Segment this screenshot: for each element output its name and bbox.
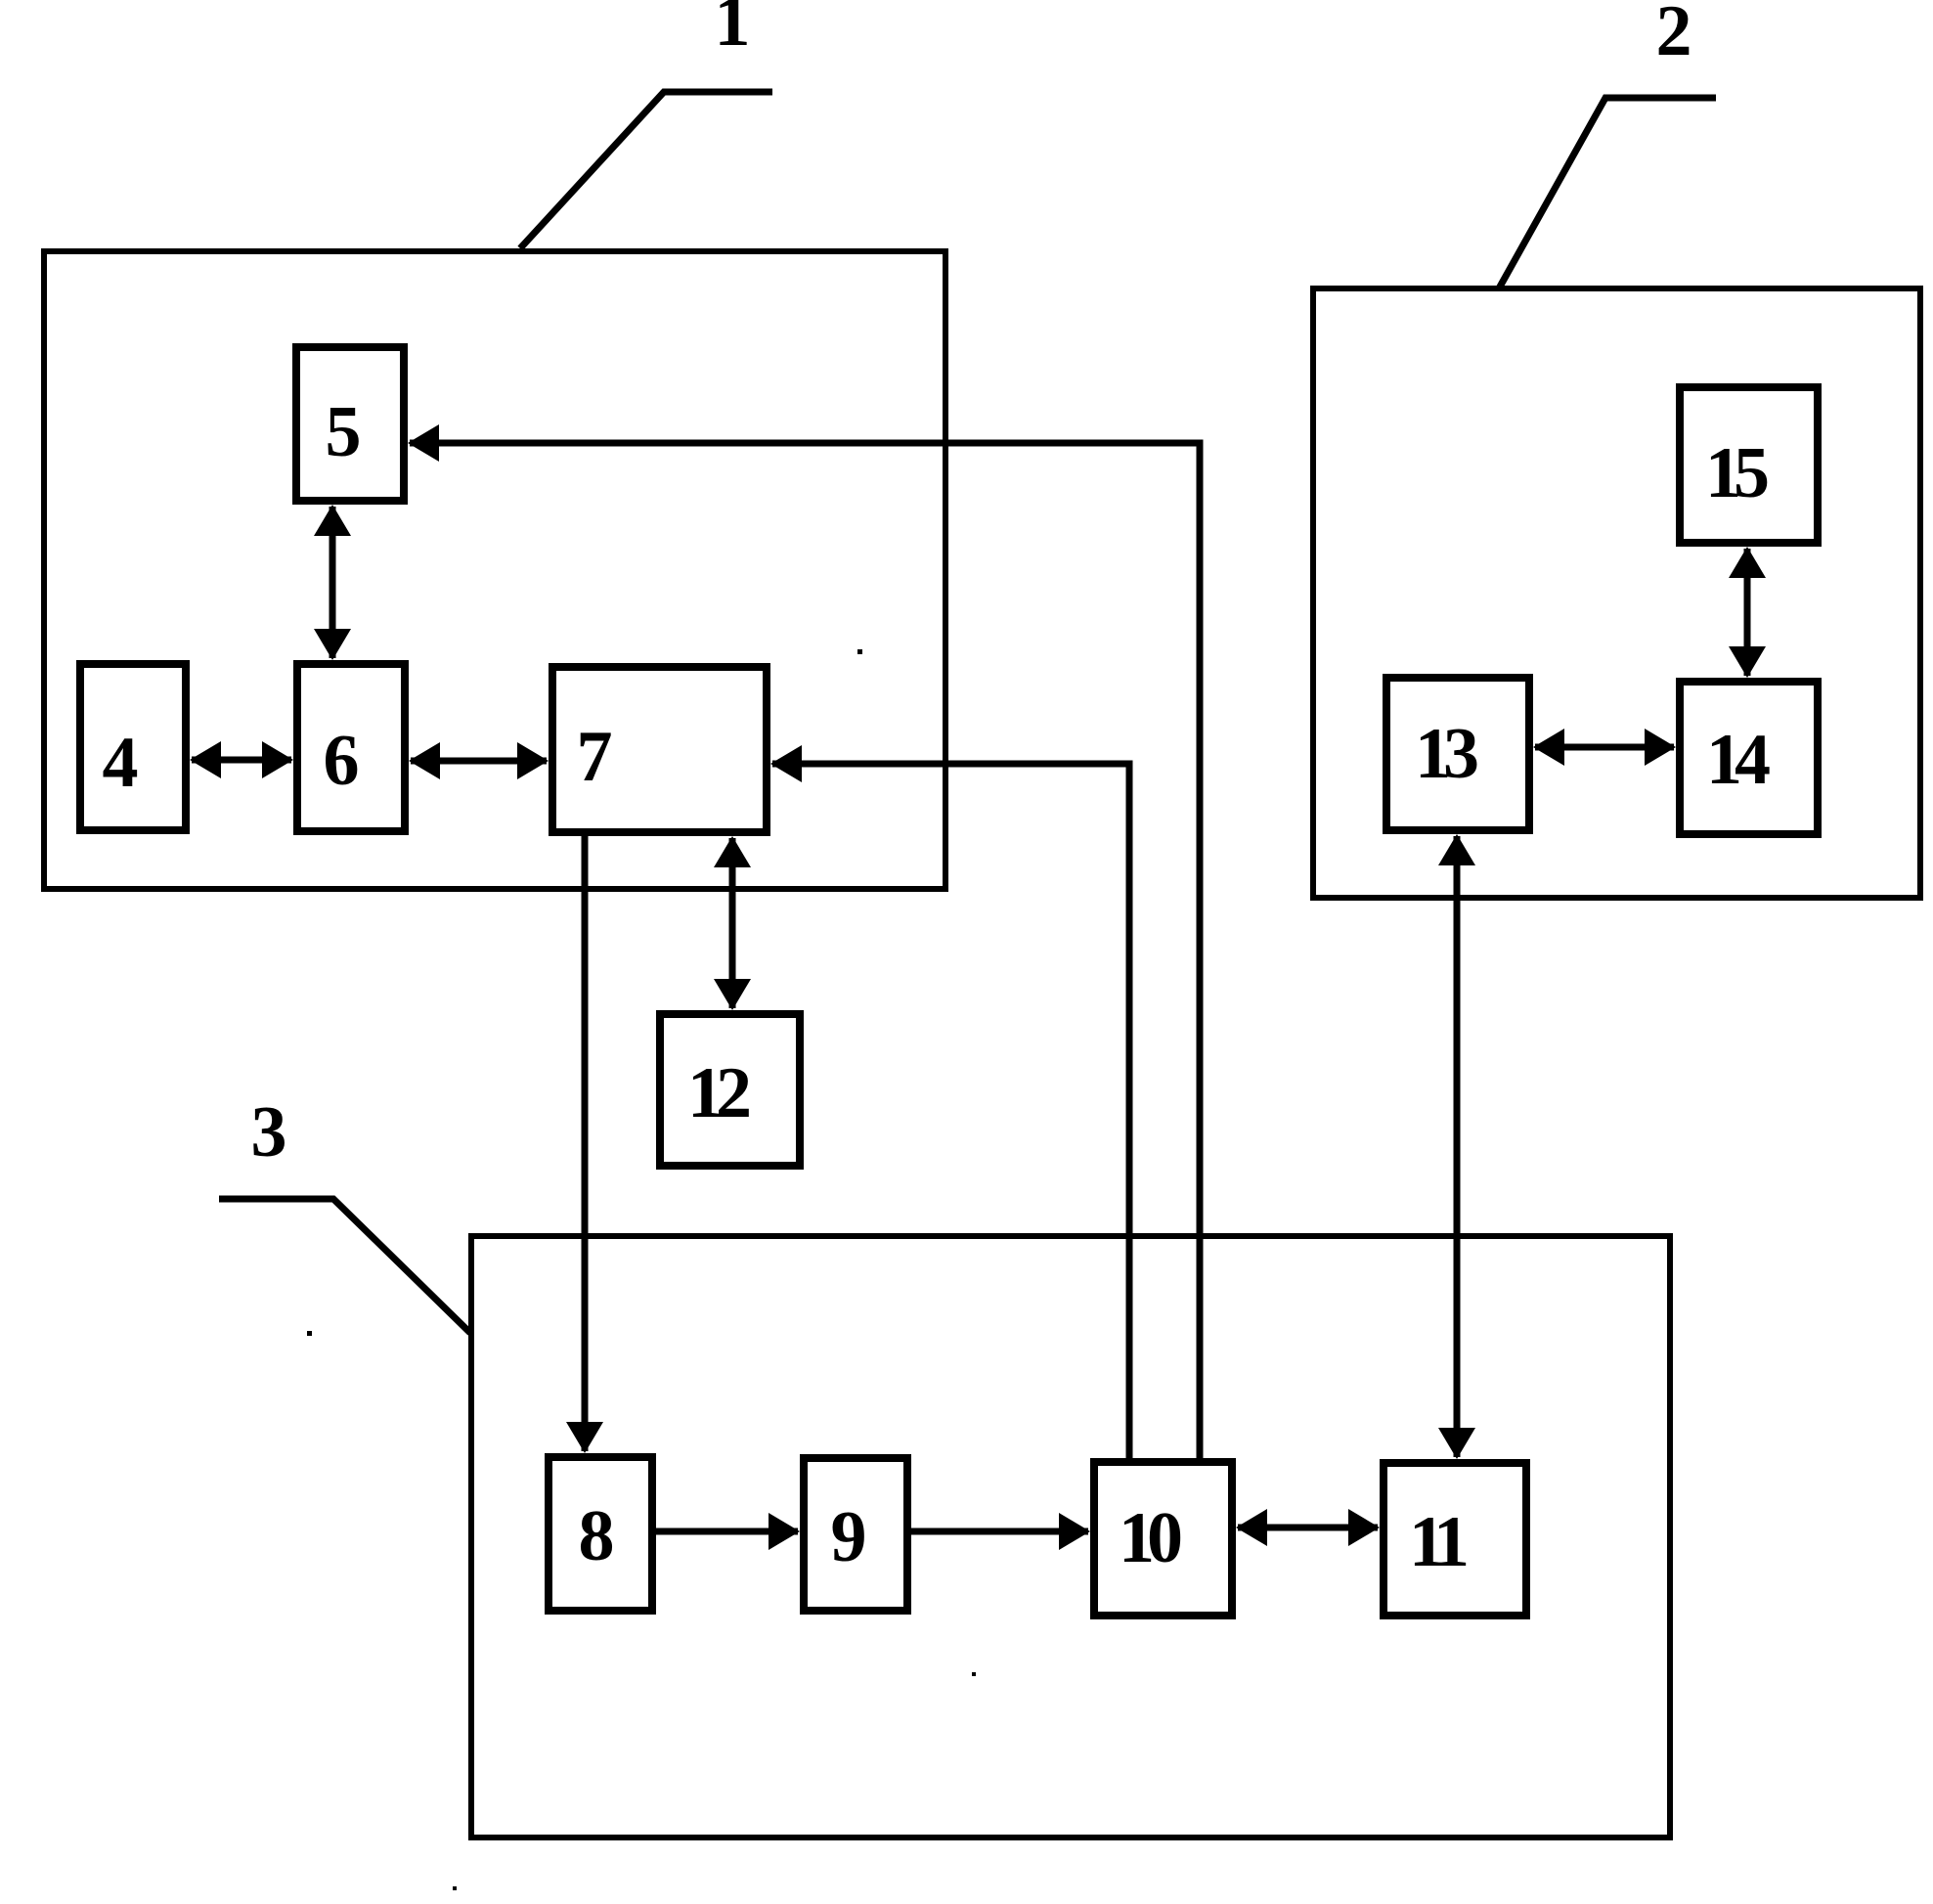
svg-text:8: 8 — [579, 1496, 615, 1576]
block 7 — [552, 667, 767, 832]
svg-text:14: 14 — [1706, 720, 1770, 800]
wire 14-15 double arrow (vertical) — [1729, 547, 1766, 678]
wire 5-6 double arrow — [314, 505, 351, 660]
svg-text:12: 12 — [687, 1053, 749, 1133]
wire 10 to 5 (up then left, arrow into 5) — [408, 424, 1200, 1458]
wire 9 to 10 (right arrow) — [911, 1513, 1090, 1550]
enclosure box 1 (dashed unit outline, top-left) — [44, 251, 945, 889]
block 8 — [549, 1457, 652, 1611]
block 13 — [1386, 678, 1529, 830]
svg-text:6: 6 — [324, 721, 360, 801]
svg-text:5: 5 — [326, 392, 362, 472]
svg-text:7: 7 — [577, 717, 613, 797]
block 9 — [804, 1458, 907, 1611]
speck below box 3 — [453, 1886, 457, 1890]
wire 8 to 9 (right arrow) — [656, 1513, 800, 1550]
block 15 — [1680, 387, 1818, 543]
wire 7 to 8 (down arrow) — [566, 836, 603, 1453]
svg-text:2: 2 — [1656, 0, 1692, 71]
wire 7-12 double arrow — [714, 836, 751, 1010]
svg-text:4: 4 — [103, 723, 139, 803]
speck near box 7 right — [857, 649, 862, 654]
svg-text:13: 13 — [1415, 714, 1477, 794]
block 11 — [1384, 1463, 1526, 1616]
wire 4-6 double arrow — [190, 741, 293, 778]
block 12 — [660, 1014, 800, 1166]
wire 13-11 double arrow (vertical) — [1438, 834, 1475, 1459]
block 10 — [1094, 1462, 1232, 1616]
svg-text:11: 11 — [1409, 1502, 1467, 1582]
leader line for label 1 — [520, 92, 772, 248]
svg-text:3: 3 — [251, 1092, 287, 1173]
block 4 — [80, 664, 186, 830]
svg-text:10: 10 — [1119, 1498, 1181, 1578]
speck left of box 3 — [307, 1331, 312, 1336]
block 6 — [297, 664, 405, 831]
enclosure box 2 (unit outline, top-right) — [1313, 288, 1920, 898]
svg-text:1: 1 — [715, 0, 751, 62]
wire 13-14 double arrow — [1533, 729, 1676, 766]
block 14 — [1680, 682, 1818, 834]
leader line for label 2 — [1499, 98, 1716, 288]
wire 10-11 double arrow — [1236, 1509, 1380, 1546]
leader line for label 3 — [219, 1199, 470, 1333]
speck inside box 3 — [972, 1672, 976, 1676]
block 5 — [296, 347, 404, 501]
enclosure box 3 (unit outline, bottom) — [471, 1236, 1670, 1838]
svg-text:15: 15 — [1705, 433, 1768, 513]
wire 6-7 double arrow — [409, 742, 549, 779]
wire 10 to 7 (up then left, arrow into 7) — [770, 745, 1129, 1458]
svg-text:9: 9 — [831, 1497, 867, 1577]
